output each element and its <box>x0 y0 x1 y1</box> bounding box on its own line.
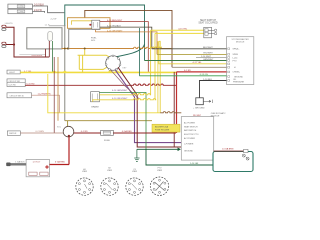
svg-text:VIEW: VIEW <box>132 171 137 173</box>
svg-text:CHG/B+: CHG/B+ <box>233 72 241 74</box>
key switch KS1 <box>105 55 121 70</box>
wire red bumpy main <box>25 84 176 85</box>
svg-text:1-1 P: 1-1 P <box>45 25 50 27</box>
svg-text:4-14 GRN/WHT: 4-14 GRN/WHT <box>112 90 128 92</box>
wire yel/wht to module <box>157 53 227 55</box>
connector seat switch <box>204 27 217 38</box>
svg-text:MODULE: MODULE <box>236 41 245 43</box>
wire gray stub <box>49 25 65 27</box>
wire yellow bumpy 2 <box>93 33 156 101</box>
svg-text:4-05 RD/W: 4-05 RD/W <box>32 55 44 57</box>
wire teal top run <box>65 5 145 61</box>
svg-text:KEY: KEY <box>123 68 128 70</box>
headlight HL1 <box>2 25 6 30</box>
solenoid circle <box>63 126 74 137</box>
connector circle C1 <box>76 178 93 195</box>
PTO clutch box <box>213 152 253 172</box>
wire green ground row <box>139 75 226 77</box>
fuse F1 <box>101 130 114 135</box>
svg-text:2-PIN: 2-PIN <box>18 11 24 13</box>
svg-text:GRN/WHT: GRN/WHT <box>203 59 214 61</box>
svg-text:6-1 RD: 6-1 RD <box>184 70 191 72</box>
svg-text:YEL/WHT: YEL/WHT <box>203 53 213 55</box>
svg-text:FUSE: FUSE <box>104 140 110 142</box>
svg-text:GROUND: GROUND <box>184 151 193 153</box>
wire purple from key <box>115 70 181 143</box>
wire yellow seat 1 <box>151 29 204 31</box>
wire grn to module <box>145 60 227 62</box>
svg-text:AC POWER: AC POWER <box>184 122 195 125</box>
headlight HL2 <box>2 42 6 47</box>
svg-text:CIRCUIT BR: CIRCUIT BR <box>9 81 21 83</box>
svg-text:1-10 BLK: 1-10 BLK <box>203 79 213 81</box>
wire maroon to PTO <box>214 150 244 152</box>
wire J1 to teal trunk <box>33 6 65 13</box>
yellow band hop arcs <box>53 71 118 72</box>
svg-text:METER: METER <box>9 133 17 135</box>
svg-text:L-(m): L-(m) <box>233 57 238 59</box>
svg-text:2-14 WHT: 2-14 WHT <box>201 56 212 58</box>
svg-text:FUSE HOLDER: FUSE HOLDER <box>155 130 170 132</box>
svg-text:1-14 GN: 1-14 GN <box>190 163 199 165</box>
wire orange vertical x58 <box>57 57 59 121</box>
wire dark green arrow <box>137 148 180 150</box>
box B2 circuit breaker <box>7 79 25 87</box>
svg-text:4-16 RED/WHT: 4-16 RED/WHT <box>107 20 123 22</box>
wire maroon stub big box <box>45 49 47 57</box>
svg-text:SPKB: SPKB <box>233 54 239 56</box>
wire yel/blk from relay K1 <box>100 27 152 49</box>
wire green from K2 <box>99 93 146 150</box>
svg-text:LIGHTS: LIGHTS <box>5 23 13 25</box>
relay K1 fuel solenoid <box>92 20 100 29</box>
wire tan H row to module <box>172 66 227 68</box>
yellow label box <box>152 124 180 132</box>
svg-text:1 GA BLK: 1 GA BLK <box>15 161 25 164</box>
wire maroon vertical x174 <box>173 72 175 147</box>
svg-text:ELECTRIC PTO: ELECTRIC PTO <box>184 134 199 136</box>
svg-text:4-17 YEL: 4-17 YEL <box>193 62 203 64</box>
svg-text:SEAT SWITCH: SEAT SWITCH <box>184 126 198 129</box>
svg-text:BRAKE: BRAKE <box>91 105 99 108</box>
svg-text:VIEW: VIEW <box>107 170 112 172</box>
wire yellow inside fuel box <box>72 21 92 25</box>
wire yellow upper z <box>78 50 110 58</box>
wire orange bumpy y48.5 <box>62 47 173 48</box>
wire brown vertical x54 <box>53 57 55 133</box>
junction dots orange line <box>64 48 66 50</box>
wire olive stub to solenoid <box>67 121 69 127</box>
wire gray stub y54.7 <box>19 54 46 56</box>
box B1 lights switch <box>7 70 20 74</box>
svg-text:RD WHT: RD WHT <box>193 115 202 117</box>
svg-text:AC POWER: AC POWER <box>184 137 195 140</box>
module system master <box>227 37 254 85</box>
connector circle C2 <box>101 178 118 195</box>
wire red fuse to riser <box>113 132 176 134</box>
junction headlight <box>13 43 15 45</box>
svg-text:6-25 RD: 6-25 RD <box>9 85 17 87</box>
wire headlight 1 <box>6 27 14 44</box>
svg-text:VIEW: VIEW <box>82 171 87 173</box>
wire blk/wht to module <box>152 48 227 50</box>
wire maroon headlight trunk <box>14 45 49 58</box>
svg-text:2-2 W: 2-2 W <box>51 19 58 21</box>
junction solenoid <box>68 135 70 137</box>
relay K2 brake <box>91 92 100 102</box>
connector circle C3 <box>126 178 143 195</box>
svg-text:VIEW: VIEW <box>157 170 162 172</box>
svg-text:4-15 YEL: 4-15 YEL <box>178 28 188 30</box>
svg-text:4-16 YEL/BLK: 4-16 YEL/BLK <box>107 26 121 28</box>
wire maroon from key <box>118 67 181 147</box>
svg-text:12 VOLT: 12 VOLT <box>33 162 42 164</box>
box B3 circuit breaker 2 <box>7 93 32 98</box>
wire dark green bottom run <box>146 149 245 165</box>
box B5 meter <box>7 131 20 135</box>
wire brown top run <box>85 10 172 67</box>
svg-text:MODULE: MODULE <box>211 116 220 118</box>
wire yellow to module <box>159 41 227 64</box>
svg-text:6-1 RD: 6-1 RD <box>81 131 88 133</box>
wire yellow bumpy 1 <box>99 30 150 95</box>
wire J2 <box>33 11 45 12</box>
wire red thick to module <box>177 71 227 73</box>
wire yellow curls <box>151 47 162 48</box>
big box instrument panel <box>27 28 62 49</box>
svg-text:SOL: SOL <box>91 40 96 42</box>
svg-text:LIGHT: LIGHT <box>9 72 16 74</box>
wire teal diagonal to key switch <box>108 44 144 58</box>
svg-text:+ GROUND: + GROUND <box>193 108 205 110</box>
PTO connector nub <box>244 149 249 152</box>
svg-text:BLK/WHT: BLK/WHT <box>203 47 213 49</box>
wire teal bundle x139.4 <box>138 28 140 76</box>
svg-text:PTO: PTO <box>233 60 238 62</box>
wire brown bumpy y112.5 <box>160 112 181 113</box>
wire battery red cable <box>50 164 70 166</box>
highlight box fuel solenoid <box>68 18 111 29</box>
svg-text:4 GA RED: 4 GA RED <box>122 130 133 133</box>
wire maroon from capsule down <box>48 41 50 57</box>
ground lug <box>6 163 10 167</box>
PTO clutch coils <box>242 154 249 160</box>
wire yellow riser 3 <box>159 41 160 113</box>
svg-text:SEAT OCCUPIED: SEAT OCCUPIED <box>198 22 218 25</box>
svg-text:CIRCUIT BR 30: CIRCUIT BR 30 <box>10 95 25 97</box>
wire red battery riser <box>68 137 70 165</box>
svg-text:PRESSURE: PRESSURE <box>233 82 245 84</box>
chassis module box <box>181 117 213 161</box>
wire red solenoid to fuse <box>74 132 101 134</box>
connector J1 <box>8 4 33 8</box>
svg-text:14 GA BRN: 14 GA BRN <box>222 148 234 151</box>
wire from B5 to solenoid <box>20 132 63 134</box>
wire gray trunk vertical <box>64 25 66 121</box>
oil sensor box <box>196 98 204 105</box>
wire headlight 2 <box>6 44 14 46</box>
wire gray x68.7 <box>69 29 101 49</box>
wire yellow vertical x158 <box>157 41 159 113</box>
wire yellow main band <box>20 71 176 73</box>
wire red vertical x176 <box>176 72 178 133</box>
svg-text:GROUND: GROUND <box>234 76 243 78</box>
svg-text:BAT SWITCH: BAT SWITCH <box>184 129 197 132</box>
capsule lamp inside big box <box>48 32 53 42</box>
wire olive y120.7 <box>65 120 152 122</box>
wire yellow seat 2 <box>155 32 204 34</box>
svg-text:L-POWER: L-POWER <box>184 143 194 145</box>
svg-text:SPKA +: SPKA + <box>233 48 241 51</box>
junction dot fuel <box>89 24 91 26</box>
wire wht to module <box>196 57 227 59</box>
connector J2 <box>8 9 33 14</box>
wire orange from relay K1 <box>96 30 158 55</box>
svg-text:6 GA RED: 6 GA RED <box>55 161 66 164</box>
svg-text:2-PIN: 2-PIN <box>18 6 24 8</box>
wire black oil <box>200 81 227 98</box>
svg-text:4-16 ORG/WHT: 4-16 ORG/WHT <box>107 30 123 32</box>
wire yellow L y112.8 <box>48 74 160 113</box>
svg-text:BLK/WHT 20A: BLK/WHT 20A <box>155 126 169 129</box>
ground symbol <box>134 149 139 161</box>
connector circle C4 <box>150 177 168 195</box>
wire green from capsule down <box>52 41 54 73</box>
battery <box>26 160 49 177</box>
wire battery ground cable <box>8 163 26 165</box>
wire maroon module riser <box>111 70 140 99</box>
wire pink from B3 <box>32 95 60 113</box>
wire yellow drop x82.6 <box>82 55 84 72</box>
wire red/wht from relay K1 <box>100 22 149 73</box>
arrow oil sensor <box>203 100 212 103</box>
wire yellow mid z <box>79 55 107 69</box>
